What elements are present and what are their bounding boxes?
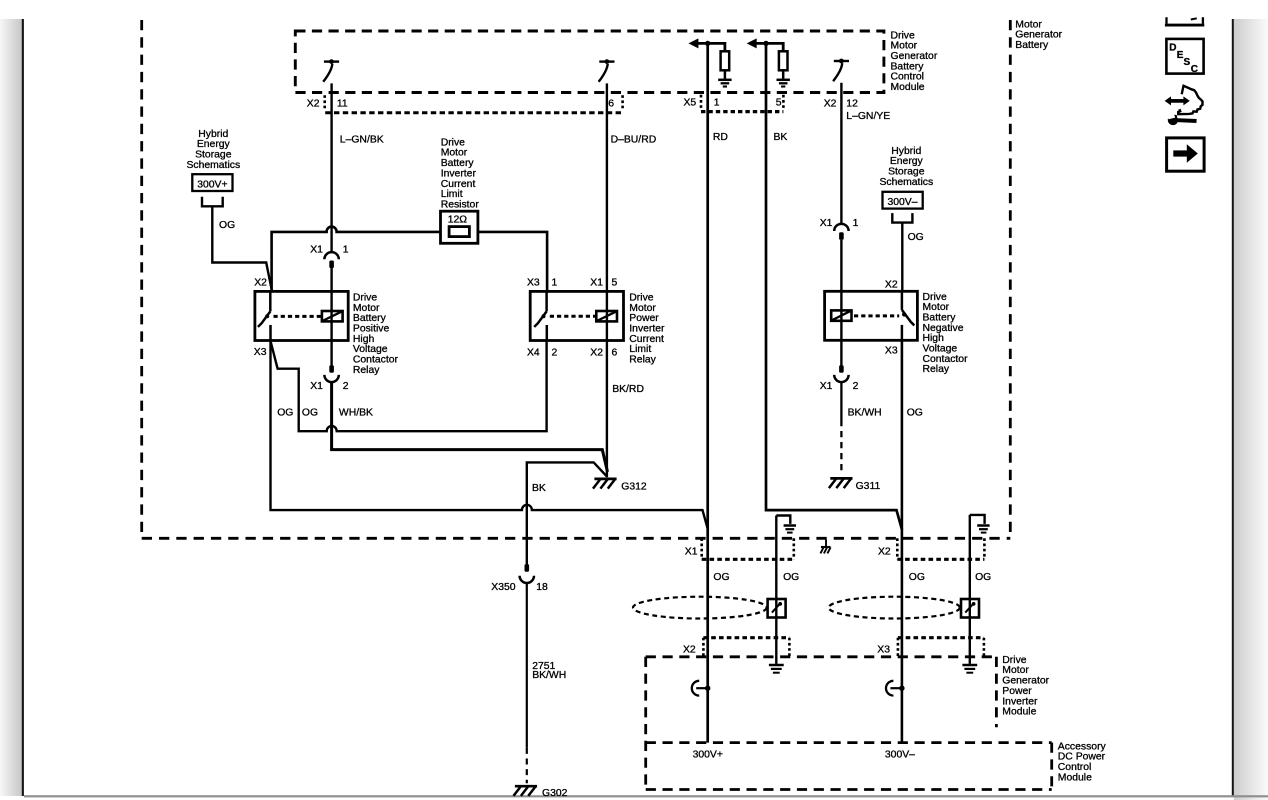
svg-text:300V–: 300V– — [885, 750, 915, 761]
svg-text:5: 5 — [612, 278, 618, 289]
svg-text:L–GN/BK: L–GN/BK — [340, 135, 384, 146]
dashed wire into G311 — [840, 420, 842, 472]
wire OG long (relay1 X3 down and right to inverter module) — [271, 341, 709, 530]
svg-text:12Ω: 12Ω — [448, 215, 468, 226]
svg-text:Voltage: Voltage — [353, 344, 388, 355]
ground G302 chassis symbol — [514, 786, 538, 796]
wire D-BU/RD (S2 down through relay coil to G312) — [606, 83, 608, 477]
svg-text:Motor: Motor — [891, 41, 918, 52]
relay2 coil box — [596, 311, 617, 321]
svg-text:1: 1 — [714, 98, 720, 109]
off-page reference box 300V+ — [192, 174, 232, 191]
page right curl gradient — [1234, 19, 1268, 800]
svg-text:Energy: Energy — [197, 139, 231, 150]
svg-text:X3: X3 — [877, 644, 890, 655]
svg-text:X1: X1 — [685, 546, 698, 557]
svg-text:BK/WH: BK/WH — [848, 408, 882, 419]
svg-text:X2: X2 — [307, 99, 320, 110]
svg-text:WH/BK: WH/BK — [339, 408, 373, 419]
svg-text:X3: X3 — [885, 346, 898, 357]
svg-text:X1: X1 — [590, 278, 603, 289]
lower boundary connector X2 — [703, 638, 789, 657]
wire OG (relay3 X3 down to inverter module) — [901, 340, 904, 742]
off-page bracket symbol — [892, 213, 912, 223]
svg-text:OG: OG — [907, 408, 923, 419]
svg-text:Inverter: Inverter — [629, 324, 665, 335]
svg-text:BK: BK — [532, 483, 546, 494]
svg-text:X1: X1 — [820, 381, 833, 392]
svg-text:Relay: Relay — [353, 365, 380, 376]
svg-text:OG: OG — [908, 232, 924, 243]
wire BK/WH (relay3 X1-2 down) — [840, 382, 842, 420]
wire 2751 BK/WH (X350 down to G302) — [526, 583, 528, 748]
svg-text:11: 11 — [337, 99, 348, 110]
relay3 actuation dashed link — [854, 314, 899, 317]
svg-text:OG: OG — [909, 572, 925, 583]
label: Drive Motor Generator Power Inverter Module — [1002, 655, 1049, 718]
svg-text:X2: X2 — [878, 546, 891, 557]
svg-text:1: 1 — [552, 278, 558, 289]
svg-text:X1: X1 — [820, 218, 833, 229]
page right border line — [1232, 19, 1234, 797]
svg-text:Negative: Negative — [923, 323, 964, 334]
relay3 coil box — [831, 310, 851, 320]
dashed wire into G302 — [526, 748, 528, 783]
right shield termination box — [961, 599, 979, 618]
svg-text:OG: OG — [975, 572, 991, 583]
off-page bracket symbol — [202, 197, 223, 207]
label: Drive Motor Power Inverter Current Limit Relay — [629, 293, 665, 366]
relay1 actuation dashed link — [274, 315, 322, 318]
left shield drain wire with grounds — [769, 516, 796, 673]
svg-text:Limit: Limit — [629, 344, 651, 355]
svg-text:C: C — [1191, 64, 1198, 75]
inline connector X1 pin 2 (relay1 coil) — [310, 365, 349, 392]
svg-text:D–BU/RD: D–BU/RD — [611, 135, 657, 146]
relay1 contact blade — [258, 291, 271, 340]
svg-text:Inverter: Inverter — [441, 168, 477, 179]
off-page reference box 300V- — [883, 192, 923, 209]
page left border line — [22, 19, 24, 796]
module dashed box: Drive Motor Generator Battery Control Module — [295, 31, 884, 93]
svg-text:Motor: Motor — [923, 302, 950, 313]
connector X5 dotted span — [701, 110, 783, 113]
svg-text:5: 5 — [776, 98, 782, 109]
toolbar icon: DESC button — [1166, 39, 1203, 75]
ground G311 chassis symbol — [829, 478, 853, 488]
relay1 coil box — [322, 311, 343, 321]
mini chassis ground on boundary — [820, 540, 830, 554]
svg-text:G312: G312 — [621, 481, 647, 492]
label: Hybrid Energy Storage Schematics (right) — [879, 146, 933, 188]
right shield dashed ellipse — [829, 597, 960, 619]
svg-text:G302: G302 — [542, 788, 568, 799]
label: Hybrid Energy Storage Schematics (left) — [186, 129, 240, 171]
svg-text:X2: X2 — [683, 644, 696, 655]
svg-text:Module: Module — [1002, 707, 1036, 718]
boundary connector X1 dotted notch — [702, 538, 794, 559]
label: Drive Motor Battery Positive High Voltage Contactor Relay — [353, 293, 399, 376]
relay3 coil wire through box — [840, 240, 842, 366]
wire OG short (relay1 X3 to relay2 X4) — [271, 340, 547, 431]
wire RD (X5-1 down to inverter module) — [706, 43, 709, 742]
svg-text:300V–: 300V– — [887, 197, 917, 208]
connector tick — [621, 95, 624, 109]
inline connector X1 pin 2 (relay3 coil) — [820, 365, 859, 392]
svg-text:OG: OG — [302, 408, 318, 419]
wire WH/BK (relay1 X1-2 to G312) — [332, 382, 608, 472]
wire OG from 300V+ to relay X2 — [212, 206, 271, 290]
svg-text:300V+: 300V+ — [197, 179, 227, 190]
inline connector on RD wire — [692, 681, 711, 696]
svg-text:18: 18 — [536, 582, 548, 593]
wire OG from 300V- to relay3 X2 — [901, 223, 903, 292]
svg-text:6: 6 — [612, 348, 618, 359]
svg-text:Schematics: Schematics — [879, 177, 933, 188]
svg-text:G311: G311 — [856, 481, 881, 492]
lower boundary connector X3 — [898, 638, 984, 657]
svg-text:2: 2 — [552, 348, 558, 359]
wire L-GN/BK (S1 down to X1-1) — [330, 83, 332, 252]
svg-text:Battery: Battery — [1015, 40, 1049, 51]
svg-text:Motor: Motor — [353, 303, 380, 314]
wire BK (X5-5 down then right to OG node) — [766, 43, 902, 529]
right shield drain wire with grounds — [962, 515, 989, 673]
connector tick — [700, 95, 703, 109]
svg-text:Motor: Motor — [441, 148, 468, 159]
svg-text:OG: OG — [219, 220, 235, 231]
connector tick — [323, 95, 326, 109]
svg-text:X3: X3 — [527, 278, 540, 289]
svg-text:Motor: Motor — [1002, 665, 1029, 676]
switch contact S1 (control module output X2-11) — [323, 59, 339, 82]
svg-text:Voltage: Voltage — [923, 344, 958, 355]
svg-text:Energy: Energy — [890, 156, 924, 167]
label: Motor Generator Battery — [1015, 19, 1062, 51]
svg-text:12: 12 — [846, 98, 858, 109]
connector tick — [782, 95, 785, 109]
switch contact S2 (control module output X2-6) — [599, 59, 615, 82]
svg-text:BK/WH: BK/WH — [532, 670, 566, 681]
svg-text:X350: X350 — [491, 582, 515, 593]
wire L-GN/YE (S3 down to relay X1-1) — [840, 83, 842, 224]
outer dashed box: Drive Motor Generator Battery — [142, 20, 1011, 538]
connector X2 dashed span — [325, 111, 622, 114]
relay K3: Drive Motor Battery Negative High Voltage Contactor Relay — [825, 291, 918, 340]
label: Accessory DC Power Control Module — [1058, 741, 1107, 783]
svg-text:Module: Module — [1058, 772, 1092, 783]
label: Drive Motor Generator Battery Control Module — [891, 30, 938, 93]
inline connector on OG wire — [886, 681, 905, 696]
toolbar icon: wrench / compare tool — [1165, 86, 1203, 125]
svg-text:2: 2 — [343, 381, 349, 392]
svg-text:X2: X2 — [590, 348, 603, 359]
relay1 coil wire through box — [330, 268, 332, 366]
svg-text:Power: Power — [1002, 686, 1032, 697]
svg-text:1: 1 — [853, 218, 859, 229]
svg-text:BK: BK — [774, 132, 788, 143]
svg-text:X2: X2 — [824, 98, 837, 109]
svg-text:OG: OG — [277, 408, 293, 419]
svg-text:X5: X5 — [684, 98, 697, 109]
svg-text:Battery: Battery — [891, 61, 925, 72]
relay2 actuation dashed link — [550, 315, 597, 318]
relay3 contact blade — [902, 291, 914, 340]
svg-text:RD: RD — [713, 132, 728, 143]
svg-text:1: 1 — [343, 245, 349, 256]
left shield dashed ellipse — [633, 597, 767, 619]
svg-text:L–GN/YE: L–GN/YE — [846, 111, 890, 122]
dashed box: Accessory DC Power Control Module — [646, 743, 1052, 790]
svg-text:X1: X1 — [310, 381, 323, 392]
svg-text:Schematics: Schematics — [186, 160, 240, 171]
svg-text:300V+: 300V+ — [693, 750, 723, 761]
switch contact S3 (control module output X2-12) — [833, 59, 849, 82]
svg-text:X3: X3 — [254, 347, 267, 358]
svg-text:Motor: Motor — [629, 303, 656, 314]
resistor R 12 ohm box — [441, 211, 478, 243]
relay K2: Drive Motor Power Inverter Current Limit Relay — [530, 291, 623, 340]
page left curl gradient — [0, 19, 22, 796]
X5 arrow output 1 with resistor and ground — [688, 38, 731, 86]
svg-text:Positive: Positive — [353, 324, 390, 335]
svg-text:Resistor: Resistor — [441, 200, 480, 211]
svg-text:D: D — [1169, 42, 1176, 53]
X5 arrow output 2 with resistor and ground — [747, 38, 790, 86]
svg-text:Relay: Relay — [923, 364, 950, 375]
svg-text:X1: X1 — [310, 245, 323, 256]
inline connector X1 pin 1 (relay1 coil) — [310, 245, 349, 269]
svg-text:2: 2 — [853, 381, 859, 392]
inline connector X350 pin 18 — [491, 564, 548, 593]
wire BK (G312 node down to X350) — [527, 462, 607, 564]
precharge bus wire (relay1 X2 to 12 ohm resistor to relay2 X3) — [272, 227, 547, 292]
label: Drive Motor Battery Inverter Current Limit Resistor — [441, 137, 480, 210]
svg-text:DC Power: DC Power — [1058, 752, 1106, 763]
left shield termination box — [768, 599, 786, 618]
svg-text:OG: OG — [713, 572, 729, 583]
svg-text:OG: OG — [783, 572, 799, 583]
svg-text:6: 6 — [608, 99, 614, 110]
toolbar icon: next-page arrow button — [1167, 138, 1205, 171]
svg-text:X2: X2 — [254, 278, 267, 289]
boundary connector X2 dotted notch — [897, 538, 984, 559]
relay K1: Drive Motor Battery Positive High Voltage Contactor Relay — [255, 291, 348, 340]
inline connector X1 pin 1 (relay3 coil) — [820, 218, 859, 240]
svg-text:S: S — [1184, 57, 1191, 68]
svg-text:BK/RD: BK/RD — [612, 384, 644, 395]
page bottom gray rule — [24, 795, 1268, 797]
svg-text:Relay: Relay — [629, 355, 656, 366]
svg-text:Module: Module — [891, 82, 925, 93]
label: Drive Motor Battery Negative High Voltage Contactor Relay — [923, 292, 969, 375]
svg-text:X2: X2 — [885, 279, 898, 290]
svg-text:X4: X4 — [527, 348, 540, 359]
dashed box: Drive Motor Generator Power Inverter Module — [646, 657, 997, 790]
toolbar icon: partial box (clipped at top) — [1165, 17, 1204, 25]
ground G312 chassis symbol — [593, 479, 617, 489]
svg-text:Limit: Limit — [441, 189, 463, 200]
relay2 contact blade — [534, 291, 547, 340]
